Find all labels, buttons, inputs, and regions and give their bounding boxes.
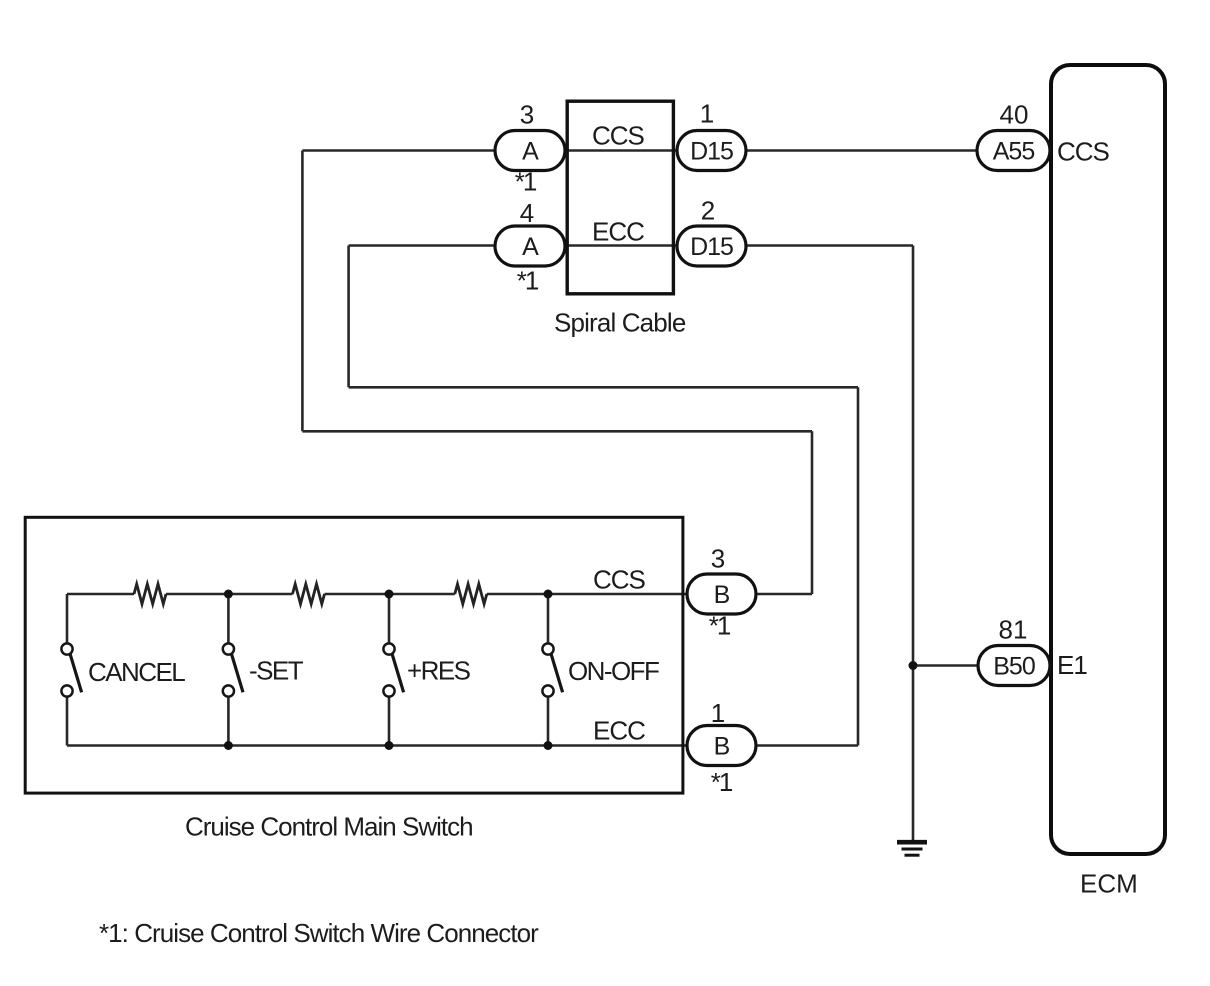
svg-text:2: 2 xyxy=(701,196,715,226)
svg-text:ON-OFF: ON-OFF xyxy=(568,656,659,686)
svg-text:3: 3 xyxy=(520,100,534,130)
svg-text:D15: D15 xyxy=(690,233,733,261)
svg-text:-SET: -SET xyxy=(249,656,304,686)
svg-text:40: 40 xyxy=(1000,100,1029,130)
svg-text:*1: *1 xyxy=(515,167,537,197)
svg-text:E1: E1 xyxy=(1057,650,1087,680)
svg-text:CCS: CCS xyxy=(593,565,646,595)
svg-text:*1: *1 xyxy=(517,266,539,296)
svg-text:*1: *1 xyxy=(711,767,733,797)
svg-text:D15: D15 xyxy=(690,138,733,166)
svg-text:*1: *1 xyxy=(709,611,731,641)
svg-text:3: 3 xyxy=(711,544,725,574)
svg-text:4: 4 xyxy=(520,198,534,228)
svg-text:A55: A55 xyxy=(993,138,1035,166)
svg-text:B50: B50 xyxy=(993,653,1035,681)
svg-text:B: B xyxy=(714,733,730,761)
svg-text:A: A xyxy=(522,233,539,261)
svg-text:1: 1 xyxy=(700,99,714,129)
svg-text:1: 1 xyxy=(711,698,725,728)
svg-text:ECC: ECC xyxy=(592,217,644,247)
svg-text:CCS: CCS xyxy=(592,121,645,151)
svg-text:*1: Cruise Control Switch Wire: *1: Cruise Control Switch Wire Connector xyxy=(99,918,539,948)
svg-text:81: 81 xyxy=(999,615,1028,645)
svg-text:Cruise Control Main Switch: Cruise Control Main Switch xyxy=(185,812,473,842)
svg-text:+RES: +RES xyxy=(407,656,471,686)
svg-text:A: A xyxy=(522,138,539,166)
svg-text:Spiral Cable: Spiral Cable xyxy=(554,308,686,338)
svg-text:CANCEL: CANCEL xyxy=(88,657,185,687)
svg-text:CCS: CCS xyxy=(1057,137,1110,167)
svg-text:ECC: ECC xyxy=(593,716,645,746)
svg-text:B: B xyxy=(714,581,730,609)
svg-text:ECM: ECM xyxy=(1080,869,1138,899)
